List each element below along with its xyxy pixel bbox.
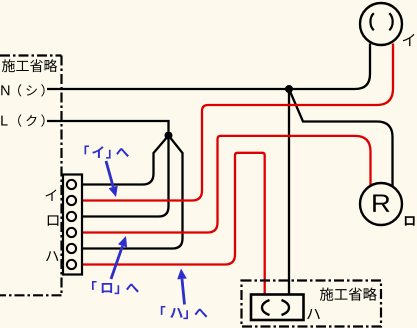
- construction-omitted boundary box (left, 施工省略): [0, 56, 62, 296]
- node L（ク） label: [1, 114, 44, 126]
- wire L: live from source to switch common junction: [47, 121, 169, 132]
- terminal 6: [67, 260, 76, 269]
- wire L to switch ロ terminal 3: [78, 136, 169, 217]
- annotation arrow to イ wire: [106, 161, 113, 187]
- wire red: switch イ (terminal 2) to lamp イ: [78, 44, 394, 201]
- wire N branch down to lamp ハ (bottom box): [288, 89, 290, 295]
- label 施工省略 (left box): [2, 59, 57, 72]
- terminal 1: [67, 180, 76, 189]
- label ロ (lamp R): [405, 216, 415, 225]
- wire L to switch ハ terminal 5: [78, 136, 183, 249]
- lamp イ (ceiling light, top right): [360, 3, 402, 45]
- annotation arrow to ハ wire: [182, 279, 185, 305]
- terminal 2: [67, 196, 76, 205]
- annotation 「ロ」へ: [92, 281, 139, 294]
- construction-omitted boundary box (bottom, 施工省略): [242, 281, 382, 327]
- label イ (lamp): [403, 34, 415, 46]
- terminal 3: [67, 212, 76, 221]
- lamp ハ (bottom box): [251, 295, 304, 321]
- terminal block (switch box): [63, 175, 82, 275]
- label ハ (lamp bottom): [307, 309, 320, 319]
- junction on N wire: [285, 85, 293, 93]
- terminal 5: [67, 244, 76, 253]
- annotation arrow to ロ wire: [111, 246, 123, 279]
- label 施工省略 (bottom box): [320, 287, 377, 300]
- annotation 「ハ」へ: [161, 306, 208, 319]
- terminal 4: [67, 228, 76, 237]
- label イ (switch): [46, 189, 57, 200]
- annotation 「イ」へ: [85, 146, 129, 159]
- label ハ (switch): [46, 251, 58, 261]
- wire red: switch ロ (terminal 4) to lamp R: [78, 136, 371, 233]
- label ロ (switch): [48, 215, 59, 225]
- wire N: neutral from source to lamp イ: [47, 44, 370, 90]
- node N（シ） label: [1, 84, 44, 96]
- junction on L wire (switch common): [165, 132, 173, 140]
- wire red: switch ハ (terminal 6) to lamp ハ: [78, 153, 265, 295]
- lamp R (right): [360, 183, 402, 225]
- wire L to switch イ terminal 1: [78, 136, 169, 185]
- wire N branch to lamp R: [289, 89, 393, 188]
